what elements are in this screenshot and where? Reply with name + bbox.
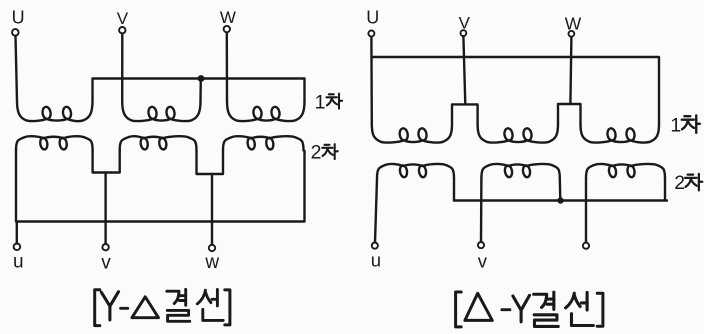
node W (right primary terminal) [565,14,582,37]
wire neutral bus (right secondary star) [454,199,667,201]
wire delta link B-C platform [558,104,581,124]
svg-text:2: 2 [674,172,685,194]
svg-text:v: v [101,252,111,273]
node V (right primary terminal) [459,13,471,36]
inductor L8 (right primary B) [478,124,558,143]
wire delta link A-B platform [452,104,478,124]
node U (right primary terminal) [366,8,379,37]
wire W lead [570,37,571,104]
svg-text:W: W [220,8,236,27]
inductor L4 (left secondary phase a) [16,136,93,150]
svg-text:2: 2 [311,142,322,164]
wire V lead [121,34,124,101]
node u (left secondary terminal) [13,244,24,273]
wire u stub [16,222,18,244]
wire coil2 to star point [199,80,202,102]
label 2cha (right secondary) [674,172,702,194]
wire V lead [463,36,465,104]
svg-text:u: u [371,250,381,271]
wire w lead [585,179,587,243]
wire delta link a-b [93,151,120,173]
inductor L11 (right secondary b) [481,164,559,179]
wire delta link b-c [197,151,224,175]
junction star point [198,75,205,82]
wire neutral bus (left primary star point) [93,79,305,102]
node u (right secondary terminal) [371,243,381,271]
wire coil-b to neutral [559,179,562,201]
svg-text:w: w [204,252,219,273]
wire w drop [211,174,213,245]
label 1cha (right primary) [670,115,699,137]
inductor L2 (left primary phase V) [122,101,200,121]
node v (right secondary terminal) [478,242,488,272]
wire u lead [375,179,377,243]
wire coil-a to neutral [453,179,455,201]
inductor L9 (right primary C) [581,124,660,143]
node W (left primary terminal) [220,8,236,33]
node w terminal (unlabelled) [583,243,589,249]
node w (left secondary terminal) [204,245,219,273]
inductor L7 (right primary A) [372,124,452,143]
inductor L10 (right secondary a) [377,164,454,179]
caption [delta-Y gyeolseon] [456,292,603,327]
inductor L3 (left primary phase W) [227,101,305,121]
wire U lead [16,36,18,101]
inductor L12 (right secondary c) [586,164,665,179]
wire v lead [480,179,483,242]
svg-text:u: u [13,251,24,272]
caption [Y-delta gyeolseon] [95,289,230,325]
inductor L6 (left secondary phase c) [223,136,304,150]
svg-text:1: 1 [315,91,326,113]
svg-text:U: U [12,8,25,28]
node v (left secondary terminal) [101,244,111,273]
node V (left primary terminal) [117,9,129,34]
svg-text:1: 1 [670,115,681,137]
wire bottom bus (left secondary delta) [16,151,305,222]
junction neutral dot [557,197,563,203]
label 2cha (left secondary) [311,142,338,164]
svg-text:U: U [366,8,379,28]
node U (left primary terminal) [12,8,25,36]
wire W lead [226,33,229,102]
wire U lead / delta left side [370,37,373,124]
svg-text:V: V [117,9,129,28]
wire coil-c to neutral [664,179,666,201]
inductor L5 (left secondary phase b) [120,136,197,150]
wire top bus (right primary delta) [372,57,660,124]
svg-text:v: v [478,251,488,272]
wire v drop [104,173,106,245]
label 1cha (left primary) [315,91,343,113]
inductor L1 (left primary phase U) [17,101,93,121]
